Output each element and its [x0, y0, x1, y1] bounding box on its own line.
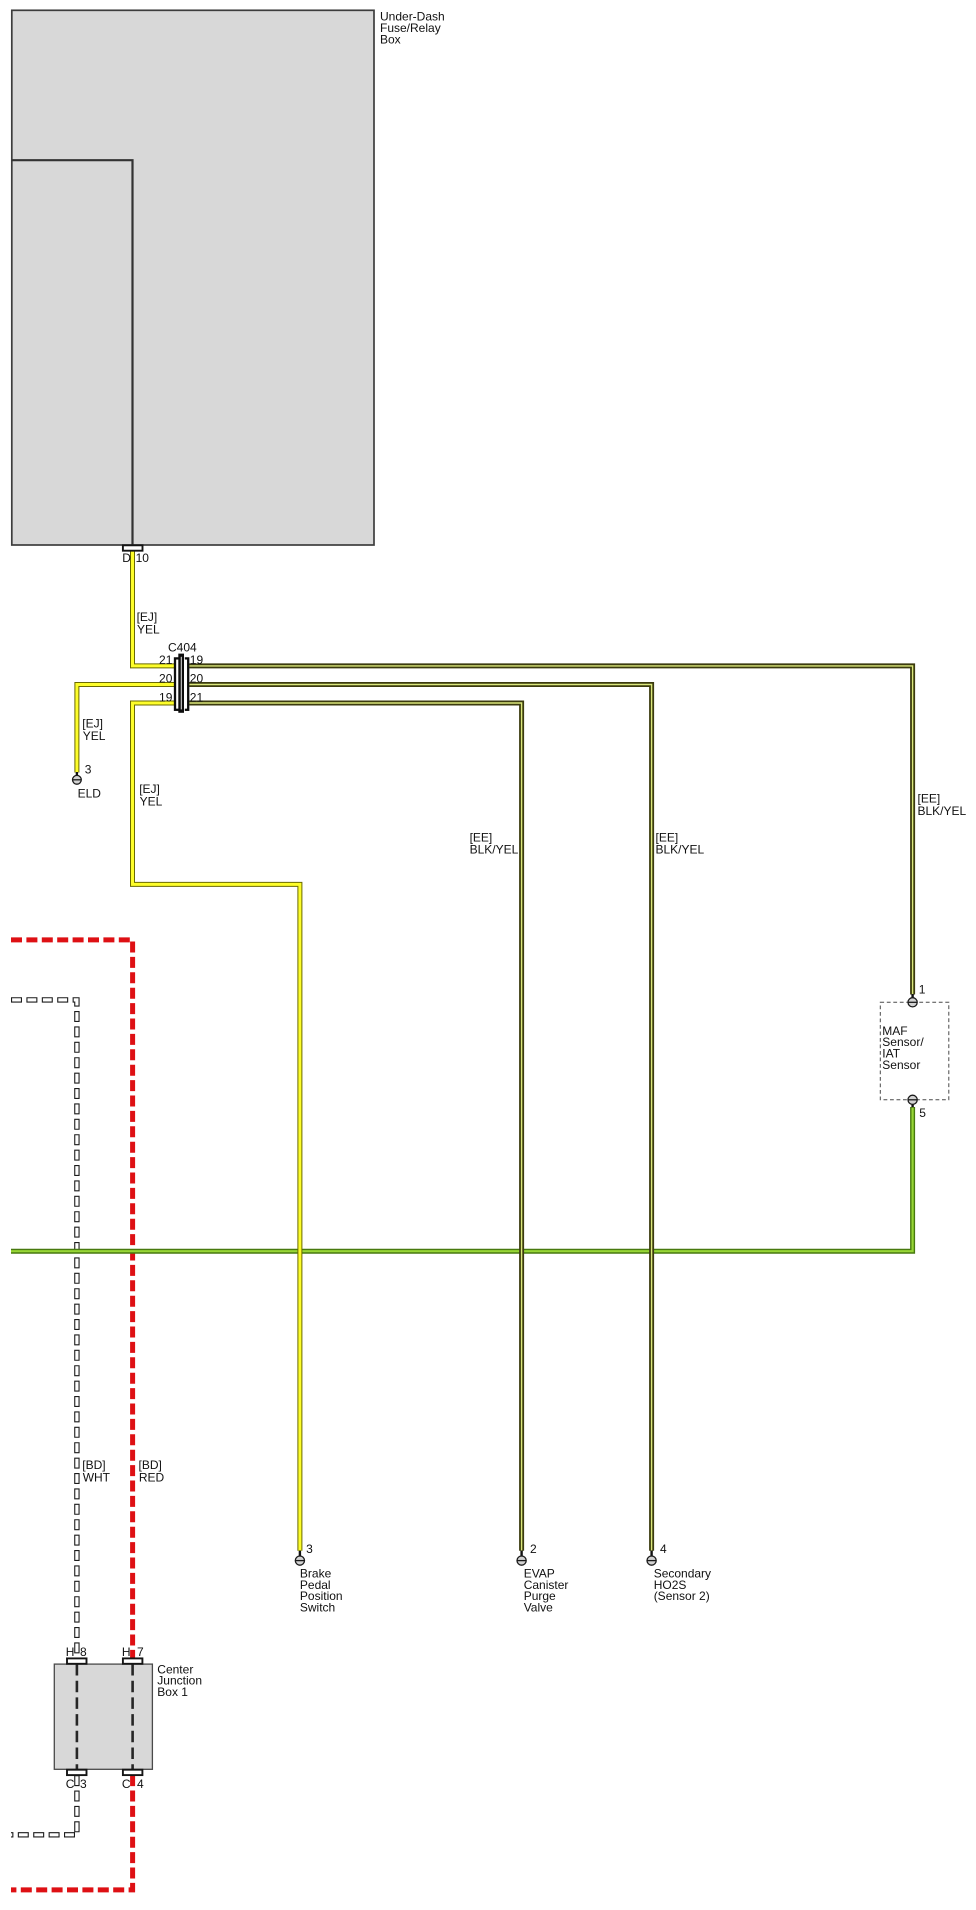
svg-text:YEL: YEL [140, 794, 163, 808]
svg-text:H: H [122, 1645, 131, 1659]
svg-text:3: 3 [85, 763, 92, 777]
svg-text:Box 1: Box 1 [157, 1685, 188, 1699]
svg-text:19: 19 [190, 653, 204, 667]
svg-text:WHT: WHT [83, 1471, 111, 1485]
svg-text:7: 7 [137, 1645, 144, 1659]
svg-text:ELD: ELD [78, 786, 102, 800]
svg-text:21: 21 [159, 653, 173, 667]
svg-text:D: D [122, 551, 131, 565]
svg-text:8: 8 [80, 1645, 87, 1659]
svg-text:BLK/YEL: BLK/YEL [470, 843, 519, 857]
svg-text:YEL: YEL [137, 623, 160, 637]
svg-text:4: 4 [660, 1542, 667, 1556]
svg-text:BLK/YEL: BLK/YEL [918, 804, 967, 818]
svg-text:4: 4 [137, 1777, 144, 1791]
svg-text:5: 5 [919, 1106, 926, 1120]
svg-text:20: 20 [159, 671, 173, 685]
svg-text:H: H [66, 1645, 75, 1659]
svg-text:C: C [122, 1777, 131, 1791]
svg-text:1: 1 [919, 983, 926, 997]
svg-text:10: 10 [136, 551, 150, 565]
svg-text:Sensor: Sensor [882, 1058, 920, 1072]
svg-text:21: 21 [190, 690, 204, 704]
svg-text:Switch: Switch [300, 1601, 335, 1615]
svg-text:(Sensor 2): (Sensor 2) [654, 1589, 710, 1603]
svg-text:20: 20 [190, 671, 204, 685]
svg-text:2: 2 [530, 1542, 537, 1556]
svg-text:Valve: Valve [524, 1601, 553, 1615]
svg-text:Box: Box [380, 32, 401, 46]
svg-text:RED: RED [139, 1471, 165, 1485]
svg-text:3: 3 [306, 1542, 313, 1556]
svg-text:3: 3 [80, 1777, 87, 1791]
svg-text:BLK/YEL: BLK/YEL [656, 843, 705, 857]
svg-text:C: C [66, 1777, 75, 1791]
svg-text:19: 19 [159, 690, 173, 704]
svg-text:YEL: YEL [83, 729, 106, 743]
